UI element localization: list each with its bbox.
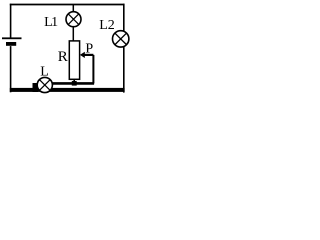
junction dot xyxy=(72,81,77,86)
potentiometer wiper arrow xyxy=(80,52,94,58)
resistor R body xyxy=(69,41,79,79)
lamp L xyxy=(37,77,52,92)
wire bottom middle thick xyxy=(53,82,95,85)
svg-text:P: P xyxy=(85,42,93,57)
wire left border upper segment xyxy=(10,4,12,38)
wire left border lower segment xyxy=(10,46,12,92)
wire wiper vertical xyxy=(92,55,94,84)
lamp L2 xyxy=(113,31,129,47)
lamp L1 xyxy=(66,12,81,27)
wire stub left of lamp L xyxy=(33,83,39,92)
wire bottom border xyxy=(10,88,125,92)
wire resistor bottom lead xyxy=(73,79,75,83)
svg-text:L: L xyxy=(40,65,49,80)
battery short thick plate xyxy=(6,42,16,46)
wire top border xyxy=(10,4,125,6)
battery long thin plate xyxy=(2,37,22,39)
svg-text:L1: L1 xyxy=(44,15,58,30)
svg-text:R: R xyxy=(58,49,68,65)
wire right border xyxy=(123,4,125,93)
wire L1 vertical lead through lamp into resistor xyxy=(72,5,74,42)
svg-text:L2: L2 xyxy=(99,18,115,33)
